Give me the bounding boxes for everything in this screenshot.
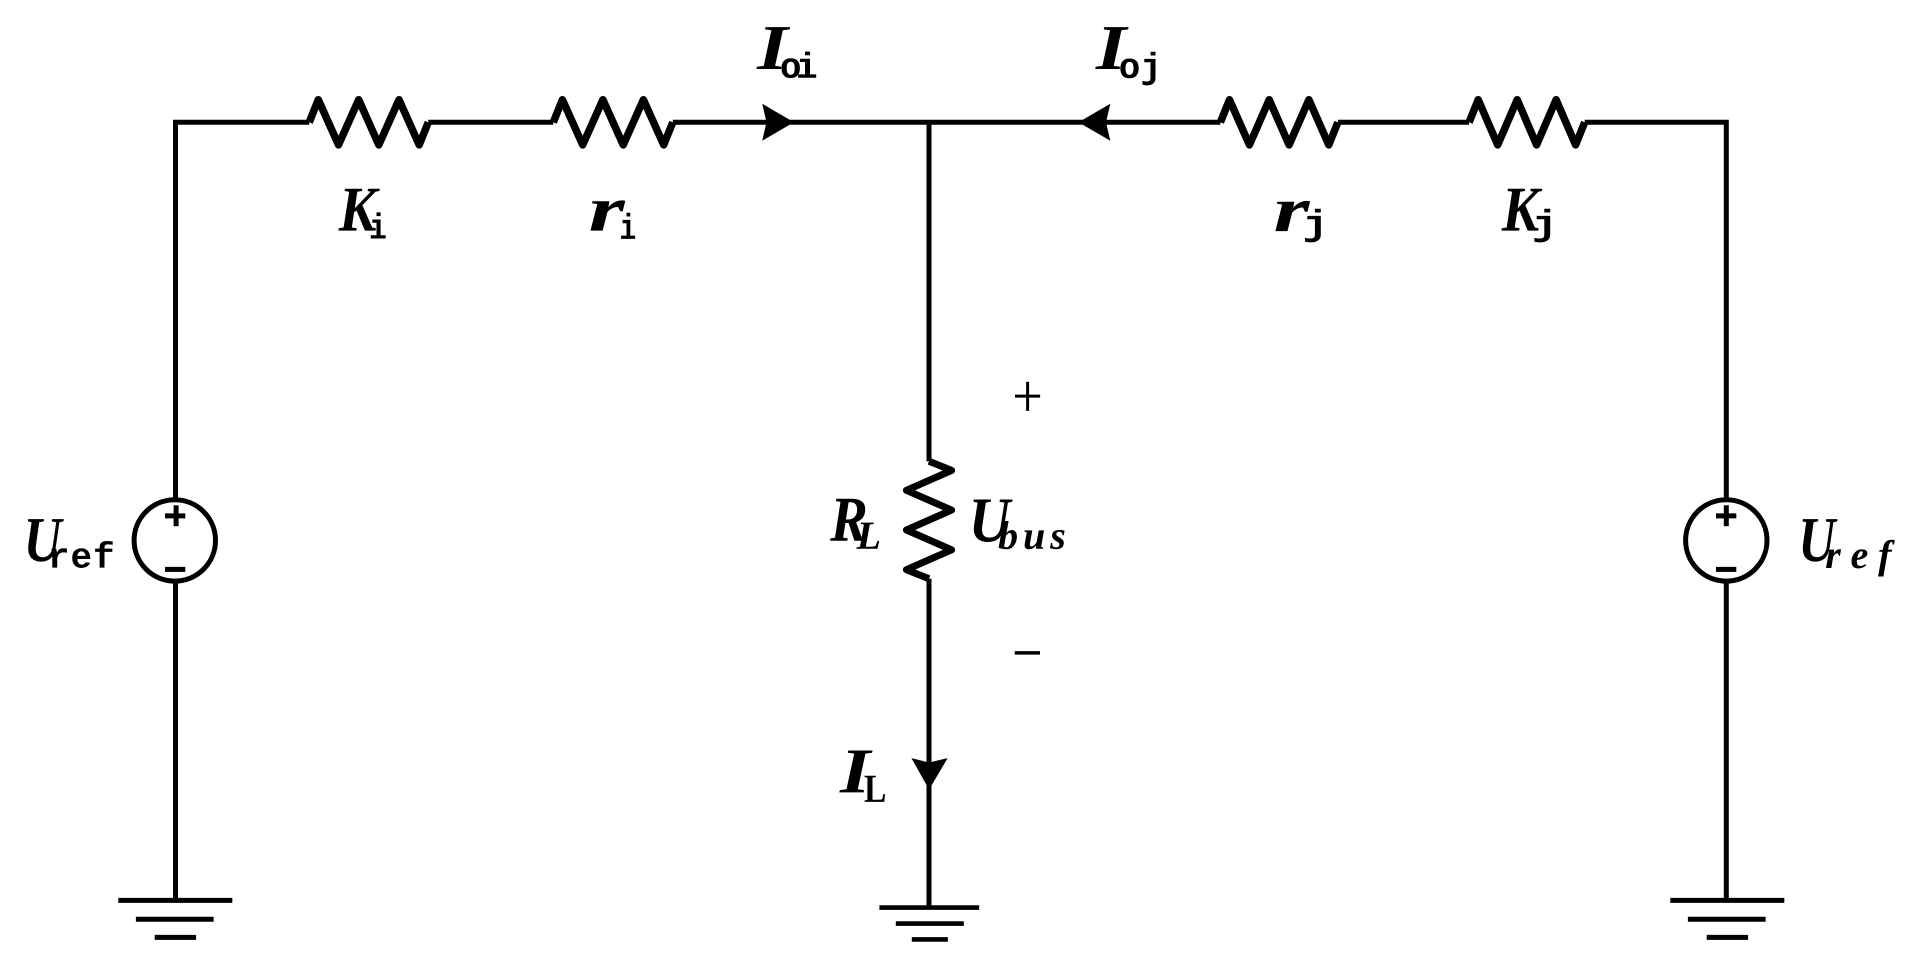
arrow IL load current downward xyxy=(911,758,947,790)
arrow Ioi current into node xyxy=(762,104,794,141)
label Ubus U xyxy=(974,500,1013,543)
resistor ri xyxy=(553,100,673,145)
label Uref left U xyxy=(28,519,64,562)
label IL I xyxy=(839,751,872,793)
ground center xyxy=(879,908,979,940)
label Uref right ref xyxy=(1826,540,1895,577)
ground left xyxy=(118,900,232,937)
label Ioi oi xyxy=(782,52,817,79)
node bus junction, wire down to RL xyxy=(927,122,932,461)
wire left branch top: up from left source, right to resistor Ki xyxy=(176,122,310,497)
label RL L xyxy=(856,523,879,549)
minus sign Ubus polarity xyxy=(1015,651,1040,655)
plus sign in right source xyxy=(1716,505,1736,526)
plus sign Ubus polarity xyxy=(1015,382,1040,411)
wire left source bottom to left ground xyxy=(173,584,178,899)
label Uref right U xyxy=(1803,519,1838,562)
label ri i xyxy=(621,213,635,239)
label rj r xyxy=(1275,201,1310,231)
label Uref left ref xyxy=(51,541,112,568)
voltage source Uref left xyxy=(134,500,215,581)
plus sign in left source xyxy=(165,505,185,526)
resistor Ki xyxy=(309,100,428,145)
ground right xyxy=(1670,900,1784,937)
label rj j xyxy=(1305,209,1321,243)
wire right branch top: from Kj right then down to right source xyxy=(1585,122,1727,497)
label Ioi I xyxy=(756,27,790,69)
label Ki i xyxy=(371,212,386,238)
resistor RL xyxy=(906,461,951,579)
label IL L xyxy=(865,776,885,802)
arrow Ioj current into node xyxy=(1079,104,1111,141)
label ri r xyxy=(591,200,626,230)
minus sign in left source xyxy=(165,567,185,572)
label Ioj I xyxy=(1095,27,1128,69)
voltage source Uref right xyxy=(1686,500,1767,581)
label Ki K xyxy=(338,189,379,231)
resistor rj xyxy=(1220,100,1338,145)
label RL R xyxy=(830,499,866,541)
wire RL bottom to center ground xyxy=(927,579,932,906)
wire right source bottom to right ground xyxy=(1724,584,1729,899)
wire between rj and Kj xyxy=(1338,120,1469,125)
wire from ri through center node to rj xyxy=(673,120,1221,125)
label Kj K xyxy=(1502,189,1543,231)
wire between Ki and ri xyxy=(428,120,553,125)
resistor Kj xyxy=(1469,100,1585,145)
minus sign in right source xyxy=(1716,567,1736,572)
label Ubus bus xyxy=(999,521,1065,549)
label Kj j xyxy=(1534,209,1550,243)
label Ioj oj xyxy=(1120,52,1155,86)
